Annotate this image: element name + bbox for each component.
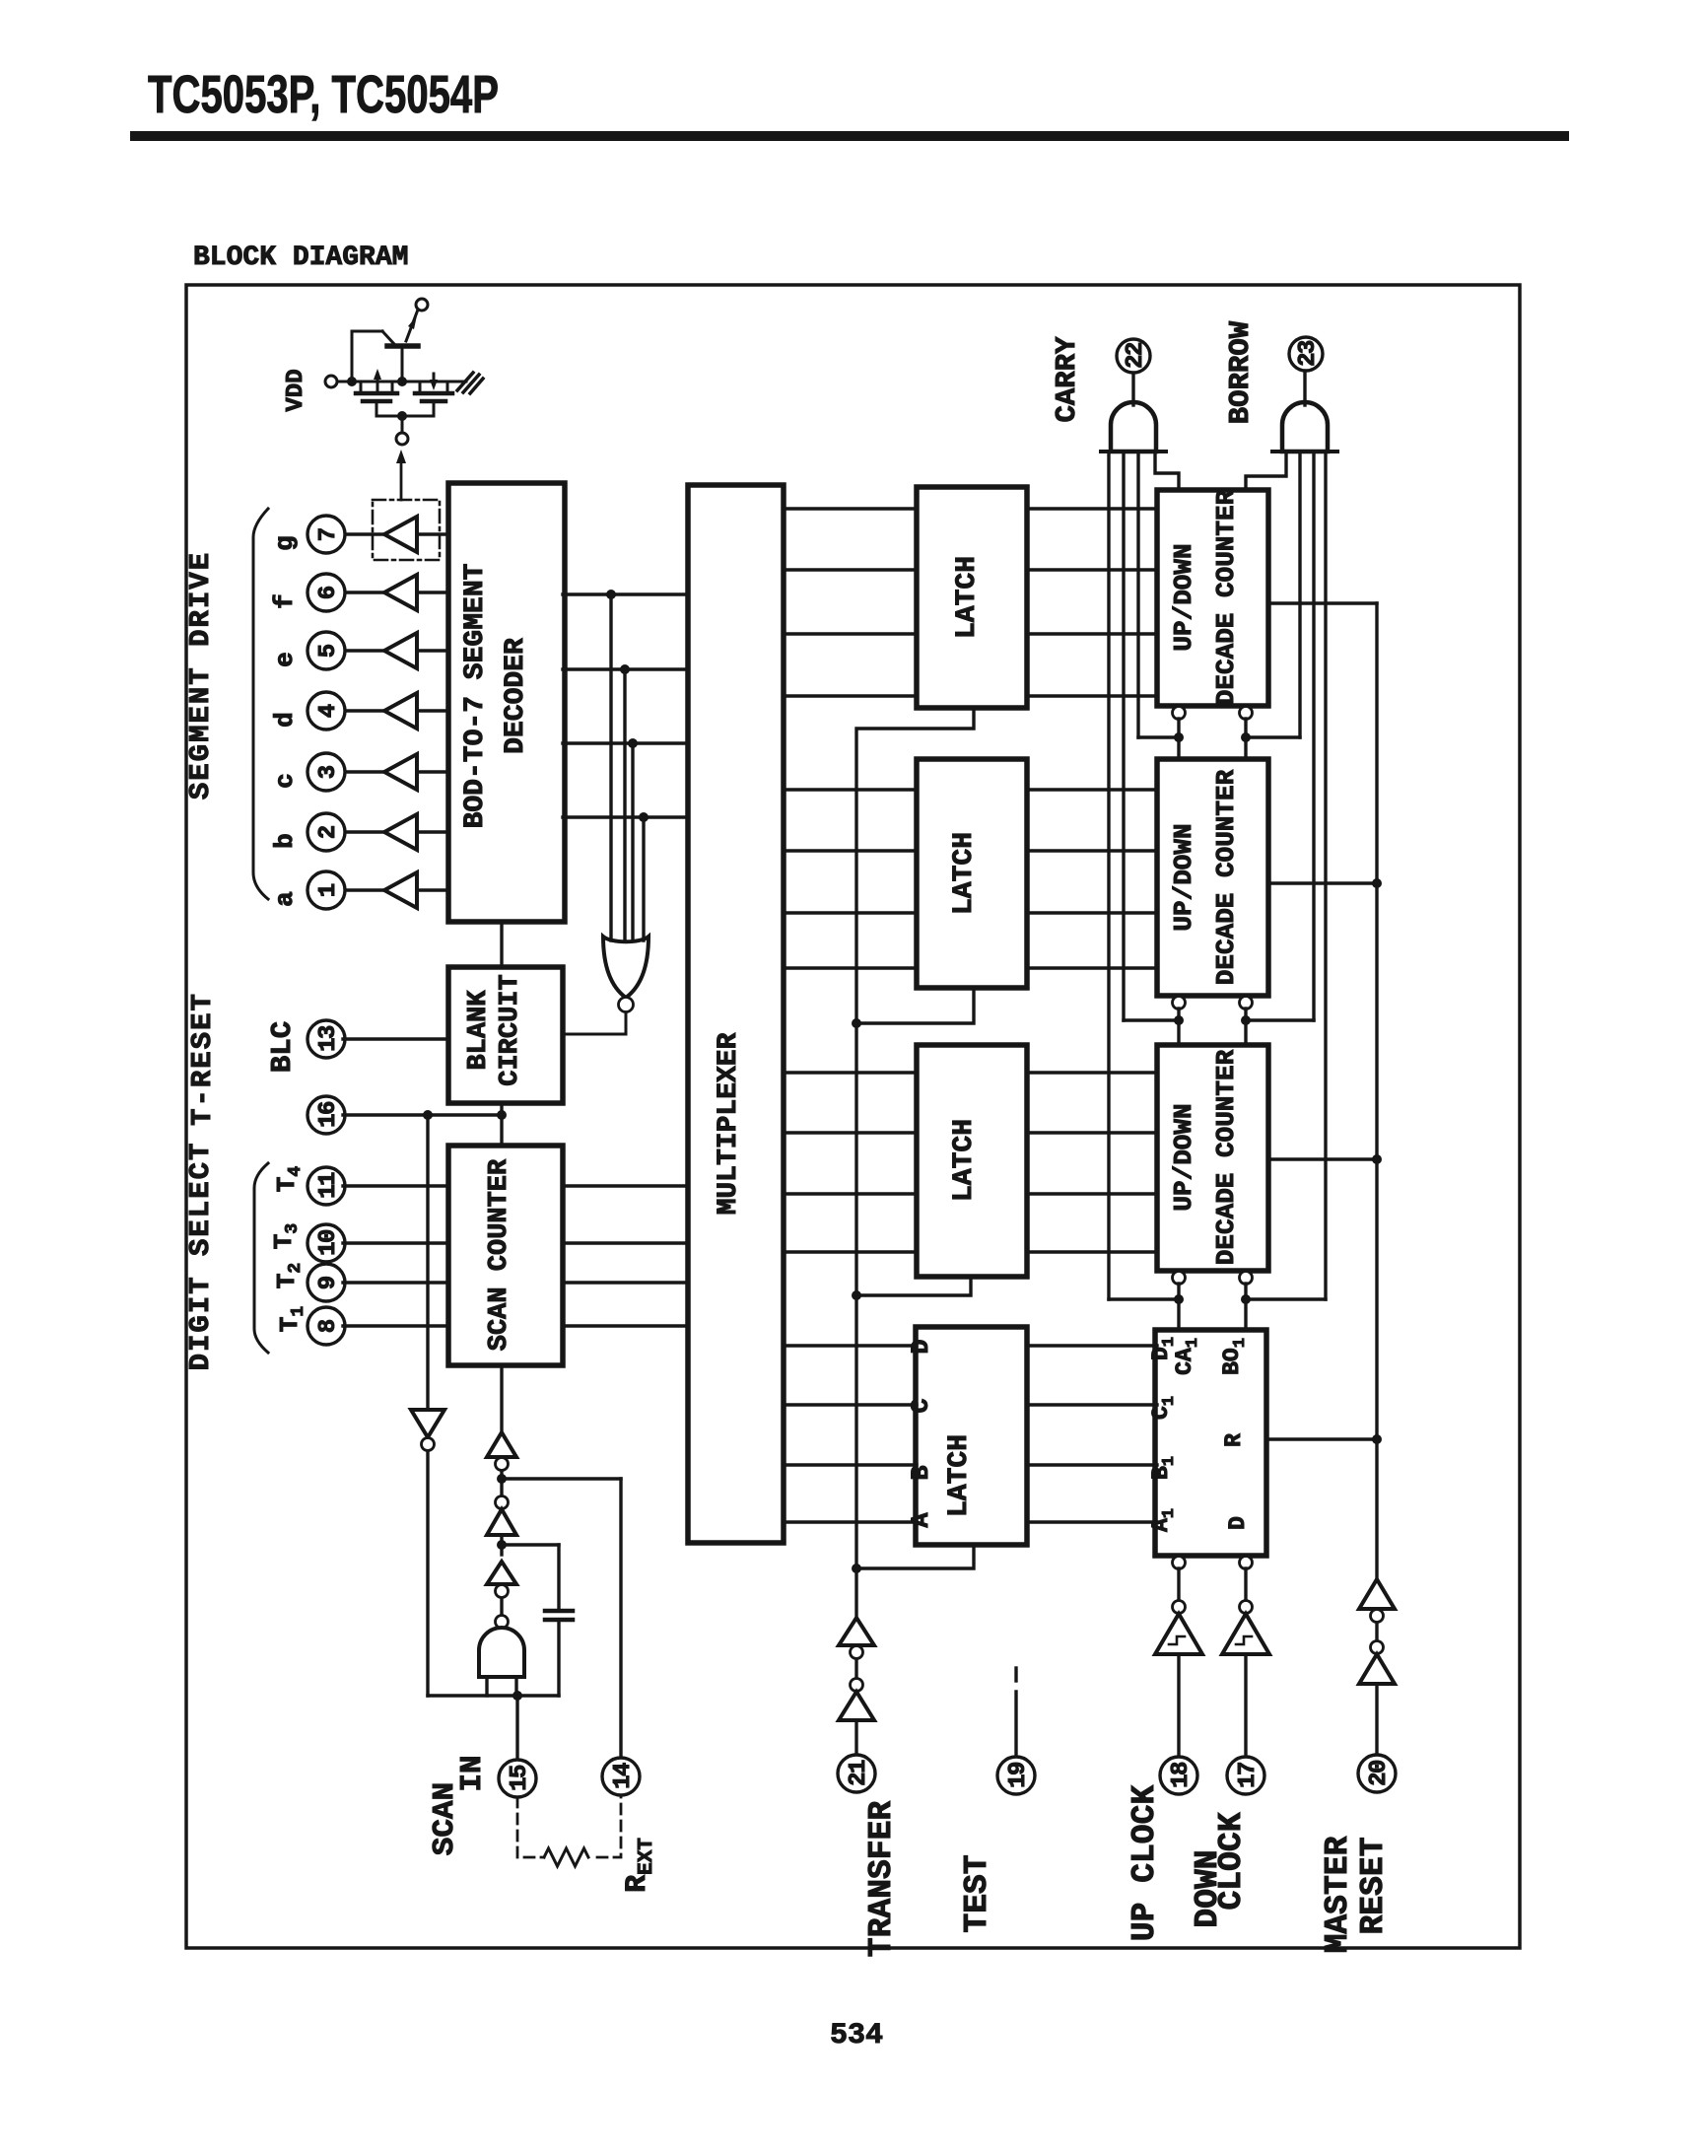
svg-text:7: 7 <box>315 527 342 541</box>
svg-text:20: 20 <box>1366 1760 1393 1786</box>
svg-text:4: 4 <box>315 704 342 718</box>
svg-text:8: 8 <box>315 1319 342 1333</box>
svg-text:BLC: BLC <box>266 1021 299 1073</box>
svg-text:f: f <box>270 593 300 609</box>
svg-text:BLANK: BLANK <box>464 990 494 1071</box>
svg-text:UP CLOCK: UP CLOCK <box>1127 1785 1163 1942</box>
svg-text:19: 19 <box>1005 1763 1032 1788</box>
svg-text:534: 534 <box>830 2019 883 2052</box>
svg-text:D: D <box>1225 1516 1251 1530</box>
svg-text:11: 11 <box>315 1172 342 1199</box>
svg-text:3: 3 <box>315 765 342 779</box>
svg-text:CARRY: CARRY <box>1051 336 1083 423</box>
svg-text:g: g <box>270 535 300 551</box>
svg-text:TRANSFER: TRANSFER <box>863 1801 900 1958</box>
svg-text:A: A <box>907 1512 935 1527</box>
svg-text:13: 13 <box>315 1025 342 1052</box>
svg-text:C: C <box>907 1398 935 1413</box>
svg-text:IN: IN <box>455 1755 490 1791</box>
svg-text:SCAN: SCAN <box>428 1782 462 1855</box>
svg-text:d: d <box>270 712 300 728</box>
svg-text:14: 14 <box>610 1763 637 1789</box>
svg-text:15: 15 <box>507 1765 533 1791</box>
svg-text:LATCH: LATCH <box>944 1434 975 1517</box>
svg-text:16: 16 <box>315 1101 342 1128</box>
svg-text:e: e <box>270 652 300 667</box>
svg-text:23: 23 <box>1295 340 1322 367</box>
svg-text:UP/DOWN: UP/DOWN <box>1169 1103 1198 1211</box>
svg-text:T-RESET: T-RESET <box>186 992 219 1126</box>
svg-text:DECADE COUNTER: DECADE COUNTER <box>1211 1049 1241 1265</box>
svg-text:B: B <box>907 1465 935 1480</box>
svg-text:D: D <box>907 1339 935 1354</box>
svg-text:17: 17 <box>1235 1763 1262 1788</box>
svg-text:10: 10 <box>315 1229 342 1256</box>
svg-text:TC5053P, TC5054P: TC5053P, TC5054P <box>148 65 499 124</box>
svg-text:R: R <box>1221 1433 1247 1447</box>
svg-text:DECADE COUNTER: DECADE COUNTER <box>1211 489 1241 705</box>
svg-text:CLOCK: CLOCK <box>1213 1812 1250 1910</box>
svg-text:LATCH: LATCH <box>949 832 980 915</box>
svg-text:BLOCK DIAGRAM: BLOCK DIAGRAM <box>193 243 408 273</box>
svg-text:5: 5 <box>315 644 342 658</box>
svg-text:c: c <box>270 773 300 789</box>
svg-text:b: b <box>270 833 300 849</box>
svg-text:a: a <box>270 891 300 907</box>
svg-text:LATCH: LATCH <box>949 1119 980 1202</box>
svg-text:TEST: TEST <box>959 1854 995 1932</box>
svg-text:1: 1 <box>315 883 342 897</box>
svg-text:9: 9 <box>315 1276 342 1289</box>
svg-text:BORROW: BORROW <box>1224 320 1257 424</box>
svg-text:RESET: RESET <box>1355 1837 1392 1934</box>
svg-text:UP/DOWN: UP/DOWN <box>1169 823 1198 931</box>
svg-text:MULTIPLEXER: MULTIPLEXER <box>714 1032 744 1215</box>
svg-text:DECODER: DECODER <box>501 638 531 754</box>
svg-text:SCAN COUNTER: SCAN COUNTER <box>485 1158 514 1351</box>
svg-text:22: 22 <box>1123 343 1149 369</box>
svg-text:DECADE COUNTER: DECADE COUNTER <box>1211 769 1241 985</box>
svg-text:DIGIT SELECT: DIGIT SELECT <box>184 1142 217 1371</box>
svg-text:18: 18 <box>1168 1762 1195 1788</box>
svg-text:21: 21 <box>846 1760 872 1786</box>
svg-text:2: 2 <box>315 825 342 839</box>
svg-text:SEGMENT DRIVE: SEGMENT DRIVE <box>184 551 217 800</box>
svg-text:CIRCUIT: CIRCUIT <box>496 974 525 1085</box>
svg-text:MASTER: MASTER <box>1320 1836 1356 1953</box>
svg-text:6: 6 <box>315 586 342 599</box>
svg-text:BOD-TO-7 SEGMENT: BOD-TO-7 SEGMENT <box>460 564 491 829</box>
svg-text:LATCH: LATCH <box>952 556 983 639</box>
svg-text:UP/DOWN: UP/DOWN <box>1169 543 1198 651</box>
svg-text:VDD: VDD <box>283 369 309 411</box>
